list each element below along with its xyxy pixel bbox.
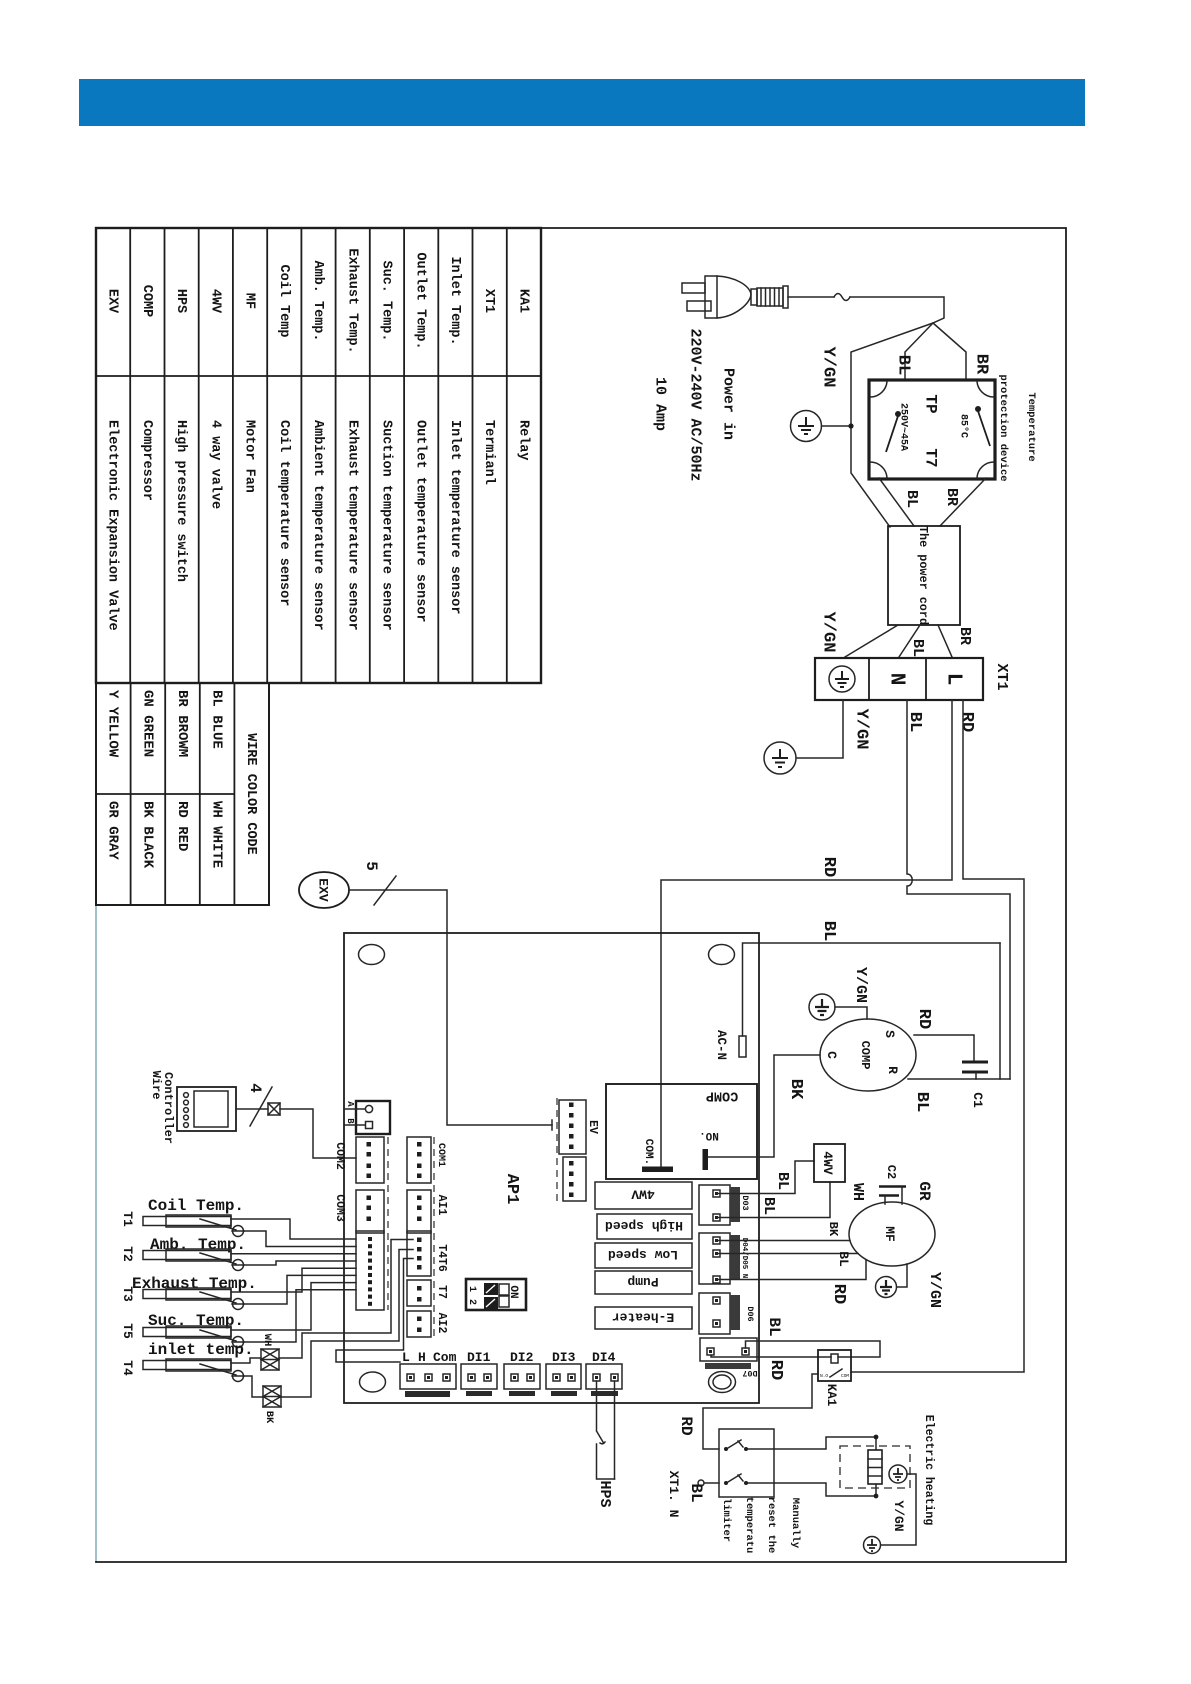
wire limiter to heater bottom bbox=[774, 1483, 876, 1496]
svg-text:RD: RD bbox=[819, 857, 838, 877]
NO. contact bar bbox=[703, 1149, 709, 1170]
KA1 switch blade bbox=[830, 1369, 842, 1377]
svg-text:Amb. Temp.: Amb. Temp. bbox=[310, 260, 325, 341]
svg-text:HPS: HPS bbox=[173, 289, 188, 313]
wire BL D07 to KA1 coil bbox=[746, 1341, 881, 1357]
svg-text:EXV: EXV bbox=[105, 289, 120, 314]
terminal XT1 block bbox=[815, 658, 983, 700]
wire Y/GN from plug bbox=[851, 323, 933, 527]
wire BK compressor C to relay NO bbox=[708, 1055, 820, 1157]
COM. contact bar bbox=[642, 1167, 673, 1173]
svg-text:2: 2 bbox=[466, 1299, 477, 1305]
svg-text:KA1: KA1 bbox=[824, 1384, 838, 1407]
svg-text:GR: GR bbox=[915, 1181, 933, 1201]
svg-text:RD: RD bbox=[914, 1009, 933, 1029]
svg-text:BK: BK bbox=[826, 1222, 840, 1237]
svg-text:Low speed: Low speed bbox=[608, 1247, 678, 1262]
wire T4 a to WH splice bbox=[231, 1358, 261, 1363]
wire BL TP to cord box bbox=[879, 478, 914, 526]
svg-text:Manually: Manually bbox=[789, 1498, 801, 1549]
dashed connector group line bbox=[387, 1137, 389, 1310]
legend table row divider bbox=[96, 375, 541, 377]
svg-text:EV: EV bbox=[586, 1120, 599, 1134]
svg-text:WH: WH bbox=[849, 1183, 866, 1201]
svg-text:Y/GN: Y/GN bbox=[852, 967, 869, 1003]
svg-text:COMP: COMP bbox=[706, 1088, 738, 1103]
wire Y/GN heater ground bbox=[881, 1474, 916, 1545]
svg-text:4WV: 4WV bbox=[207, 289, 222, 314]
svg-text:COM2: COM2 bbox=[333, 1142, 346, 1170]
blue header bar bbox=[79, 79, 1085, 126]
relay out box Pump bbox=[595, 1271, 692, 1294]
svg-text:Ambient temperature sensor: Ambient temperature sensor bbox=[310, 420, 325, 631]
4WV valve coil bbox=[814, 1144, 845, 1182]
svg-text:DI4: DI4 bbox=[592, 1350, 616, 1365]
svg-text:T4: T4 bbox=[120, 1360, 135, 1376]
svg-text:5: 5 bbox=[362, 861, 380, 871]
dashed outline EV group bbox=[556, 1098, 558, 1205]
svg-text:NO.: NO. bbox=[699, 1129, 719, 1141]
wire BL compressor R junction bbox=[908, 1078, 1010, 1080]
svg-text:T1: T1 bbox=[120, 1211, 135, 1227]
wire EXV to EV connector bbox=[349, 890, 552, 1125]
svg-text:10 Amp: 10 Amp bbox=[652, 377, 669, 431]
ground symbol at compressor bbox=[809, 994, 835, 1020]
svg-text:DI1: DI1 bbox=[467, 1350, 491, 1365]
svg-text:BL: BL bbox=[760, 1197, 777, 1215]
svg-text:T7: T7 bbox=[922, 448, 940, 467]
connector D07 bbox=[700, 1338, 757, 1361]
svg-text:BL: BL bbox=[836, 1251, 851, 1267]
svg-text:BL: BL bbox=[774, 1172, 791, 1190]
svg-text:Y/GN: Y/GN bbox=[926, 1272, 943, 1308]
limiter switch top bbox=[724, 1447, 728, 1451]
svg-text:RD: RD bbox=[957, 712, 976, 732]
connector D04/D05 bbox=[699, 1233, 730, 1284]
wire T4 b to BK splice bbox=[244, 1376, 264, 1397]
ground symbol in heater bbox=[889, 1465, 907, 1483]
svg-text:BL: BL bbox=[894, 355, 913, 375]
wire T1 b bbox=[244, 1231, 357, 1247]
svg-text:EXV: EXV bbox=[316, 878, 331, 902]
ground symbol lower bbox=[764, 742, 796, 774]
svg-text:BL: BL bbox=[687, 1483, 705, 1502]
svg-text:RD: RD bbox=[766, 1360, 785, 1380]
svg-text:COM: COM bbox=[841, 1373, 849, 1379]
plug strain relief bbox=[751, 289, 757, 305]
wire T4T6 pin3 to L H Com bbox=[336, 1259, 413, 1363]
sensor header 10 pin bbox=[356, 1231, 384, 1310]
svg-text:Compressor: Compressor bbox=[139, 420, 154, 501]
svg-text:T5: T5 bbox=[120, 1323, 135, 1339]
svg-text:BK BLACK: BK BLACK bbox=[139, 801, 155, 869]
connector DI4 bbox=[586, 1364, 622, 1389]
TP corner arc terminals bbox=[871, 382, 888, 398]
svg-text:BK: BK bbox=[263, 1411, 275, 1424]
svg-text:WH WHITE: WH WHITE bbox=[209, 801, 225, 868]
svg-text:BL BLUE: BL BLUE bbox=[209, 690, 225, 749]
svg-text:Exhaust temperature sensor: Exhaust temperature sensor bbox=[344, 420, 359, 631]
svg-text:HPS: HPS bbox=[596, 1480, 613, 1507]
TP left switch bbox=[895, 411, 901, 417]
splice WH bbox=[261, 1349, 279, 1370]
TP right switch bbox=[975, 406, 981, 412]
AC-N pin bbox=[739, 1036, 746, 1057]
svg-text:C: C bbox=[824, 1051, 839, 1059]
wire ground to compressor bbox=[835, 1007, 867, 1019]
svg-text:XT1: XT1 bbox=[993, 663, 1010, 690]
svg-text:D06: D06 bbox=[745, 1306, 755, 1321]
svg-text:Coil temperature sensor: Coil temperature sensor bbox=[276, 420, 291, 606]
wire T1 a bbox=[231, 1219, 356, 1239]
ground symbol bottom bbox=[864, 1537, 881, 1554]
svg-text:MF: MF bbox=[882, 1226, 897, 1242]
limiter switch bottom bbox=[724, 1481, 728, 1485]
svg-text:BK: BK bbox=[786, 1079, 805, 1100]
ground symbol at MF bbox=[876, 1277, 897, 1298]
svg-text:Temperature: Temperature bbox=[1025, 392, 1037, 461]
wire color code row divider bbox=[96, 793, 234, 795]
svg-text:220V-240V AC/50Hz: 220V-240V AC/50Hz bbox=[687, 328, 704, 481]
power plug body bbox=[705, 276, 717, 318]
svg-text:Y/GN: Y/GN bbox=[819, 347, 838, 388]
svg-text:protection device: protection device bbox=[997, 374, 1009, 481]
svg-text:T7: T7 bbox=[435, 1285, 448, 1299]
svg-text:WH: WH bbox=[261, 1334, 273, 1347]
wire RD from XT1 L to COMP relay bbox=[661, 700, 952, 1167]
wire BL XT1.N to limiter bbox=[705, 1482, 719, 1484]
svg-text:GR GRAY: GR GRAY bbox=[105, 801, 121, 860]
svg-text:BL: BL bbox=[912, 1092, 931, 1112]
relay out box Low speed bbox=[595, 1243, 692, 1268]
wire KA1 NO to limiter bbox=[703, 1374, 818, 1449]
svg-text:BL: BL bbox=[765, 1317, 783, 1336]
connector DI1 bbox=[461, 1364, 497, 1389]
svg-text:MF: MF bbox=[242, 293, 257, 309]
svg-text:R: R bbox=[885, 1066, 900, 1074]
wire Y/GN MF to ground bbox=[897, 1264, 907, 1287]
svg-text:1: 1 bbox=[466, 1286, 477, 1292]
power cord wire bbox=[788, 296, 834, 298]
svg-text:RD: RD bbox=[677, 1416, 695, 1435]
wire BK splice to T4T6 pin2 bbox=[281, 1250, 413, 1398]
wire BK D04 to MF bbox=[717, 1240, 851, 1242]
PCB mounting hole bottom-right (double ring) bbox=[709, 1372, 736, 1393]
svg-text:High speed: High speed bbox=[605, 1218, 683, 1233]
svg-text:BL: BL bbox=[909, 639, 926, 657]
svg-text:High pressure switch: High pressure switch bbox=[173, 420, 188, 582]
svg-text:DI2: DI2 bbox=[510, 1350, 534, 1365]
svg-text:E-heater: E-heater bbox=[612, 1310, 674, 1325]
COMP relay box bbox=[606, 1084, 757, 1179]
svg-text:Y/GN: Y/GN bbox=[852, 709, 871, 750]
connector A-B bbox=[356, 1101, 390, 1134]
wire BR cord box to XT1 L bbox=[938, 625, 952, 657]
svg-text:Outlet temperature sensor: Outlet temperature sensor bbox=[413, 420, 428, 623]
wire limiter to heater top bbox=[774, 1437, 876, 1450]
svg-text:Inlet temperature sensor: Inlet temperature sensor bbox=[447, 420, 462, 614]
wire RD N to MF bbox=[717, 1260, 867, 1280]
wire color code verticals bbox=[131, 683, 235, 905]
svg-text:85°C: 85°C bbox=[958, 414, 970, 438]
svg-text:Outlet Temp.: Outlet Temp. bbox=[413, 252, 428, 349]
svg-text:T3: T3 bbox=[120, 1286, 135, 1302]
wire WH splice to T4T6 pin1 bbox=[279, 1240, 413, 1359]
EXV valve symbol bbox=[299, 872, 349, 908]
svg-text:C1: C1 bbox=[970, 1092, 985, 1108]
svg-text:Exhaust Temp.: Exhaust Temp. bbox=[344, 248, 359, 353]
connector DI2 bbox=[504, 1364, 540, 1389]
relay KA1 box bbox=[818, 1350, 851, 1381]
svg-text:4: 4 bbox=[246, 1083, 264, 1093]
svg-text:COMP: COMP bbox=[139, 285, 154, 317]
capacitor C1 bbox=[962, 1061, 988, 1064]
wire DI4 to HPS left bbox=[596, 1381, 598, 1430]
compressor motor COMP bbox=[820, 1019, 916, 1091]
wire BR TP to cord box bbox=[940, 478, 986, 526]
relay out box 4WV bbox=[595, 1182, 692, 1209]
svg-text:4 way valve: 4 way valve bbox=[207, 420, 222, 509]
svg-text:Wire: Wire bbox=[149, 1071, 163, 1100]
svg-text:4WV: 4WV bbox=[631, 1187, 655, 1202]
svg-text:inlet temp.: inlet temp. bbox=[148, 1341, 254, 1359]
harness slash mark 5 bbox=[374, 876, 396, 905]
power cord wire to corner bbox=[850, 297, 944, 323]
svg-text:COM.: COM. bbox=[642, 1139, 654, 1165]
relay out box High speed bbox=[597, 1214, 692, 1239]
svg-text:RD RED: RD RED bbox=[174, 801, 190, 851]
svg-text:BL: BL bbox=[819, 921, 838, 941]
svg-text:T4T6: T4T6 bbox=[435, 1244, 448, 1272]
svg-text:Y/GN: Y/GN bbox=[891, 1500, 906, 1531]
splice BK bbox=[263, 1386, 281, 1407]
svg-text:H: H bbox=[418, 1350, 426, 1365]
wire T5 b bbox=[244, 1290, 357, 1342]
svg-text:Motor Fan: Motor Fan bbox=[242, 420, 257, 493]
svg-text:Electric heating: Electric heating bbox=[922, 1415, 935, 1526]
svg-text:Pump: Pump bbox=[627, 1274, 658, 1289]
wire RD 2 from XT1 L to KA1 bbox=[851, 700, 1024, 1372]
svg-text:XT1. N: XT1. N bbox=[666, 1471, 681, 1518]
svg-text:L: L bbox=[942, 673, 965, 686]
svg-text:Controller: Controller bbox=[161, 1072, 175, 1144]
connector below EV bbox=[563, 1157, 586, 1201]
svg-text:Electronic Expansion Valve: Electronic Expansion Valve bbox=[105, 420, 120, 631]
svg-text:limiter: limiter bbox=[720, 1498, 732, 1542]
heater element resistor bbox=[868, 1450, 882, 1484]
svg-text:BR: BR bbox=[972, 354, 991, 375]
capacitor C2 bbox=[879, 1185, 906, 1188]
svg-text:A: A bbox=[345, 1101, 355, 1107]
svg-text:Coil Temp.: Coil Temp. bbox=[148, 1197, 244, 1215]
heater dashed enclosure bbox=[840, 1446, 910, 1488]
connector COM3 bbox=[356, 1190, 384, 1233]
XT1 ground terminal bbox=[829, 666, 855, 692]
wire BL from XT1 N (hops over RD) bbox=[907, 700, 1010, 1079]
svg-text:reset the: reset the bbox=[765, 1497, 777, 1554]
legend table outer border bbox=[96, 228, 541, 683]
wire T3 a bbox=[231, 1268, 356, 1292]
svg-text:AI2: AI2 bbox=[435, 1313, 448, 1334]
svg-text:temperatu: temperatu bbox=[743, 1497, 755, 1554]
PCB mounting hole top-right bbox=[709, 945, 735, 965]
svg-text:4WV: 4WV bbox=[820, 1151, 835, 1175]
cord break symbol bbox=[834, 294, 850, 301]
fan motor MF bbox=[849, 1202, 935, 1266]
temperature protection device TP box bbox=[869, 380, 995, 479]
svg-text:AC-N: AC-N bbox=[714, 1030, 728, 1060]
wire color code table border bbox=[96, 683, 269, 905]
svg-text:AI1: AI1 bbox=[435, 1195, 448, 1216]
wire controller box bbox=[177, 1087, 236, 1131]
svg-text:Power in: Power in bbox=[720, 368, 737, 440]
svg-text:Y/GN: Y/GN bbox=[819, 612, 838, 653]
splice box bbox=[268, 1103, 280, 1115]
svg-text:Com: Com bbox=[433, 1350, 457, 1365]
wire T2 a bbox=[231, 1253, 356, 1255]
svg-text:D03: D03 bbox=[740, 1195, 750, 1210]
svg-text:BR BROWM: BR BROWM bbox=[174, 690, 190, 757]
svg-text:COM3: COM3 bbox=[333, 1194, 346, 1222]
wire BL D05 to MF bbox=[717, 1253, 859, 1255]
svg-text:C2: C2 bbox=[884, 1165, 898, 1179]
svg-text:BL: BL bbox=[905, 712, 924, 732]
frame left edge (pale) bbox=[95, 906, 97, 1561]
PCB mounting hole bottom-left bbox=[360, 1372, 386, 1392]
wire RD D07 to KA1 coil bbox=[711, 1355, 831, 1357]
svg-text:COM1: COM1 bbox=[435, 1143, 446, 1167]
connector EV bbox=[559, 1100, 586, 1154]
the power cord box bbox=[888, 526, 960, 625]
wire RD compressor S to C1 bbox=[914, 1035, 974, 1062]
svg-text:COMP: COMP bbox=[858, 1041, 872, 1070]
svg-text:Relay: Relay bbox=[515, 420, 530, 461]
svg-text:Y YELLOW: Y YELLOW bbox=[105, 690, 121, 758]
wire BL cord box to XT1 N bbox=[899, 625, 920, 657]
svg-text:S: S bbox=[882, 1030, 897, 1038]
connector T7 bbox=[407, 1280, 431, 1306]
wire DI4 to HPS right bbox=[614, 1381, 616, 1479]
svg-text:D07: D07 bbox=[742, 1368, 757, 1378]
svg-text:ON: ON bbox=[507, 1285, 519, 1298]
junction dot bbox=[848, 423, 853, 428]
wire BL branch to AC-N bbox=[743, 943, 1001, 1036]
wire T2 b bbox=[244, 1261, 357, 1265]
PCB board outline bbox=[344, 933, 759, 1403]
wire BL into TP bbox=[905, 323, 933, 380]
wire D03 to 4WV coil bbox=[717, 1161, 815, 1194]
connector D06 bbox=[699, 1293, 730, 1334]
svg-text:GN GREEN: GN GREEN bbox=[139, 690, 155, 757]
KA1 coil pin bbox=[831, 1354, 838, 1363]
svg-text:RD: RD bbox=[829, 1284, 848, 1304]
svg-text:WIRE COLOR CODE: WIRE COLOR CODE bbox=[243, 733, 258, 855]
svg-text:BR: BR bbox=[943, 488, 960, 506]
svg-text:Coil Temp: Coil Temp bbox=[276, 265, 291, 338]
svg-text:Suc. Temp.: Suc. Temp. bbox=[379, 260, 394, 341]
connector D03 bbox=[699, 1185, 730, 1225]
dip switch block bbox=[466, 1279, 526, 1310]
connector COM1 bbox=[407, 1137, 431, 1183]
legend table grid verticals bbox=[130, 228, 507, 683]
svg-text:Termianl: Termianl bbox=[481, 420, 496, 485]
svg-text:Inlet Temp.: Inlet Temp. bbox=[447, 256, 462, 345]
svg-text:T2: T2 bbox=[120, 1246, 135, 1262]
ground symbol top bbox=[791, 411, 822, 442]
wire ground to Y/GN junction bbox=[822, 425, 852, 427]
svg-text:N.O.: N.O. bbox=[820, 1373, 831, 1379]
svg-text:KA1: KA1 bbox=[515, 289, 530, 313]
wire T3 b bbox=[244, 1275, 357, 1304]
svg-text:BL: BL bbox=[903, 490, 920, 508]
harness slash mark 4 bbox=[250, 1087, 272, 1126]
PCB mounting hole top-left bbox=[359, 945, 385, 965]
drawing frame border bbox=[96, 228, 1066, 1562]
power plug pin 2 bbox=[687, 301, 711, 311]
svg-text:B: B bbox=[345, 1118, 355, 1124]
connector COM2 bbox=[356, 1137, 384, 1183]
power plug pin 1 bbox=[682, 283, 705, 293]
svg-text:AP1: AP1 bbox=[502, 1174, 521, 1205]
wire D03 to 4WV coil 2 bbox=[717, 1182, 831, 1218]
connector L H Com bbox=[400, 1364, 456, 1389]
temperature limiter box bbox=[719, 1429, 774, 1497]
svg-text:TP: TP bbox=[922, 394, 940, 413]
wire Y/GN from XT1 to ground bbox=[797, 700, 843, 758]
svg-text:N: N bbox=[885, 673, 908, 686]
svg-text:Exhaust Temp.: Exhaust Temp. bbox=[132, 1275, 257, 1293]
svg-text:The power cord: The power cord bbox=[916, 526, 930, 625]
wire controller to COM2 bbox=[236, 1109, 356, 1158]
wire T5 a bbox=[231, 1283, 356, 1330]
connector DI3 bbox=[546, 1364, 581, 1389]
svg-text:L: L bbox=[402, 1350, 410, 1365]
wire BR into TP bbox=[933, 323, 966, 380]
svg-text:XT1: XT1 bbox=[481, 289, 496, 313]
svg-text:Suction temperature sensor: Suction temperature sensor bbox=[379, 420, 394, 631]
svg-text:D04/D05 N: D04/D05 N bbox=[740, 1238, 748, 1279]
relay out box E-heater bbox=[595, 1307, 692, 1329]
connector AI1 bbox=[407, 1190, 431, 1233]
svg-text:DI3: DI3 bbox=[552, 1350, 576, 1365]
HPS switch blade bbox=[597, 1431, 606, 1444]
connector T4T6 bbox=[407, 1231, 431, 1276]
svg-text:BR: BR bbox=[956, 627, 973, 645]
connector AI2 bbox=[407, 1311, 431, 1337]
svg-text:250V~45A: 250V~45A bbox=[898, 403, 909, 451]
wire Y/GN cord box to XT1 bbox=[845, 625, 898, 657]
